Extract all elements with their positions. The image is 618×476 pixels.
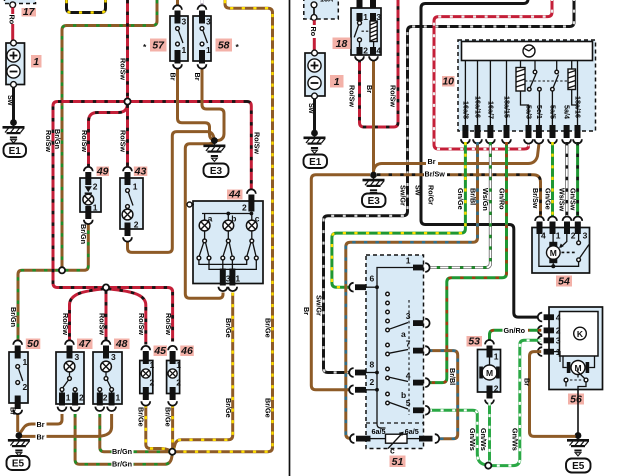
- svg-text:Br: Br: [302, 307, 311, 315]
- pins 6a/5 of 51: [350, 434, 354, 443]
- svg-text:a: a: [401, 329, 406, 339]
- svg-text:Ro/Sw: Ro/Sw: [61, 313, 70, 335]
- svg-text:2: 2: [23, 382, 28, 392]
- wire Gn/Ws motor 56 pin3 to washer junction: [492, 340, 541, 465]
- svg-text:48: 48: [115, 338, 128, 350]
- wire Br from switch 50 to ground E5: [16, 413, 19, 433]
- svg-text:1: 1: [182, 45, 187, 55]
- diode in 49: [85, 186, 92, 192]
- bus in 44: [202, 213, 251, 215]
- svg-text:54: 54: [558, 276, 570, 288]
- motor unit 56: [549, 307, 603, 390]
- svg-text:Sw/Gr: Sw/Gr: [398, 185, 407, 206]
- svg-text:M: M: [486, 368, 493, 378]
- pump 53: [467, 336, 483, 347]
- svg-text:Ro/Sw: Ro/Sw: [97, 313, 106, 335]
- svg-text:5c/1: 5c/1: [535, 105, 544, 119]
- svg-text:6a/5: 6a/5: [372, 427, 386, 436]
- wire Ro/Sw main horizontal and left riser: [53, 102, 247, 342]
- ground E3: [203, 143, 225, 161]
- node ground dot E5: [16, 432, 23, 439]
- wire Ro/Sw relay 18 loop to top edge: [360, 0, 399, 127]
- wire Br motor 56 pin1 to ground E5: [530, 352, 576, 437]
- ground E5: [8, 438, 30, 456]
- svg-text:E5: E5: [572, 461, 585, 472]
- wire Br ground E3 to relay 10 pin 5c/1: [374, 144, 539, 172]
- wire Br from switch 43 to ground E3: [128, 132, 215, 253]
- lamp 45: [141, 346, 150, 350]
- svg-text:Ro/Sw: Ro/Sw: [164, 313, 173, 335]
- svg-text:1: 1: [116, 393, 121, 403]
- wire Ws/Gn relay 10 16a/7 to switch 51 pin1: [429, 142, 490, 268]
- svg-text:1: 1: [556, 231, 561, 241]
- wire Br/Bl switch 51 pin7 to pin 6a/5 right: [429, 351, 458, 439]
- svg-text:c: c: [390, 446, 395, 456]
- svg-text:2: 2: [363, 46, 368, 56]
- svg-text:16a/7: 16a/7: [487, 101, 496, 119]
- svg-text:Br: Br: [365, 85, 374, 93]
- node ground dot E1: [10, 119, 17, 126]
- svg-text:Gn/Ws: Gn/Ws: [510, 428, 519, 451]
- lamp a: [199, 220, 210, 231]
- svg-text:b: b: [231, 214, 236, 224]
- svg-text:Ro/Sw: Ro/Sw: [119, 58, 128, 80]
- wire Br/Ge from lamp 45 to junction: [146, 405, 170, 451]
- wire Br/Gn branch to switch 50: [18, 270, 59, 341]
- svg-text:7: 7: [406, 339, 411, 349]
- wire Br relay 18 pin4 to ground E3: [372, 59, 375, 173]
- svg-text:44: 44: [228, 189, 241, 201]
- switch 58: [198, 5, 207, 9]
- svg-text:46: 46: [180, 345, 193, 357]
- wire Gn/Ge relay 10 16a/8 to switch 51 pin6: [332, 142, 466, 287]
- svg-text:8: 8: [370, 360, 375, 370]
- svg-text:Br/Gn: Br/Gn: [79, 224, 88, 244]
- svg-text:56: 56: [570, 394, 582, 406]
- panel divider: [289, 0, 291, 476]
- lamp b: [223, 220, 234, 231]
- svg-text:2: 2: [242, 203, 247, 213]
- wire Br/Bl relay 10 16a/16 to switch 51 pin 6a/5 left: [346, 142, 478, 438]
- svg-text:3: 3: [406, 311, 411, 321]
- svg-text:Ro/Sw: Ro/Sw: [348, 85, 357, 107]
- wire Ro/Sw feed to lamp 48: [105, 291, 108, 342]
- label Br/Sw on E3 feed: [424, 169, 447, 178]
- svg-text:43: 43: [134, 165, 147, 177]
- wire Ro/Sw branch to lamp 49: [89, 103, 128, 168]
- fuse box 17: [5, 0, 36, 4]
- svg-text:4: 4: [376, 46, 381, 56]
- wire Ro fuse to battery right: [313, 20, 316, 50]
- svg-text:57: 57: [152, 40, 165, 52]
- wire Br/Sw ground E3 to motor 54 pin4: [377, 175, 541, 219]
- ground E3 right: [363, 177, 385, 195]
- label 49: [97, 167, 110, 177]
- svg-text:1: 1: [23, 357, 28, 367]
- node Ro/Sw junction upper: [124, 98, 130, 104]
- svg-text:3: 3: [556, 336, 561, 346]
- svg-text:Sw: Sw: [307, 103, 316, 114]
- svg-text:Br: Br: [9, 407, 18, 415]
- svg-text:Gn/Ge: Gn/Ge: [543, 188, 552, 210]
- svg-text:E1: E1: [309, 157, 322, 168]
- svg-text:Ro/Sw: Ro/Sw: [389, 85, 398, 107]
- svg-text:Br: Br: [428, 157, 436, 166]
- node washer junction: [485, 463, 491, 469]
- label 54: [556, 276, 572, 287]
- svg-text:1: 1: [150, 360, 155, 370]
- wire Gn/Ge relay 10 5a/5 to motor 54 pin1: [551, 142, 554, 218]
- label 17: [22, 8, 37, 17]
- fuse box right: [304, 0, 339, 19]
- coil of relay 18: [370, 21, 377, 42]
- label Br on E3 feed: [426, 157, 438, 166]
- svg-text:Ro/Sw: Ro/Sw: [119, 130, 128, 152]
- svg-text:3: 3: [206, 17, 211, 27]
- wire Gn/Ro relay 10 18a/15 to switch 51 pin4: [429, 142, 507, 383]
- svg-text:1: 1: [334, 76, 340, 88]
- label 51: [390, 456, 406, 468]
- label 1: [31, 55, 42, 68]
- coils relay 10: [516, 68, 525, 92]
- node Ro/Sw junction lower: [103, 284, 109, 290]
- svg-text:Br/Bl: Br/Bl: [468, 188, 477, 205]
- label 44: [227, 190, 243, 200]
- svg-text:18a/15: 18a/15: [503, 96, 512, 118]
- svg-text:53: 53: [468, 336, 480, 348]
- svg-text:18: 18: [336, 38, 348, 50]
- wire Br from switch 58 to ground E3: [202, 68, 224, 141]
- svg-text:2: 2: [571, 231, 576, 241]
- node ground dot E1 right: [311, 130, 318, 137]
- wire Br/Gn branch to lamp 49: [65, 223, 88, 271]
- svg-text:Gn/Ro: Gn/Ro: [497, 188, 506, 210]
- svg-text:Br: Br: [193, 73, 202, 81]
- switch 57: [173, 5, 182, 9]
- motor unit 54: [535, 217, 544, 221]
- svg-text:Br/Gn: Br/Gn: [112, 460, 132, 469]
- wire Br/Gn from lamp 48 pin2 to junction: [100, 414, 169, 452]
- label 1 right: [330, 75, 344, 88]
- lamp 46: [168, 346, 177, 350]
- svg-text:Ro: Ro: [309, 27, 318, 37]
- svg-text:5a/5: 5a/5: [549, 105, 558, 119]
- svg-text:15A: 15A: [320, 0, 333, 4]
- label 45: [154, 346, 168, 357]
- switch 50: [13, 340, 22, 344]
- svg-text:Br/Sw: Br/Sw: [531, 188, 540, 209]
- svg-text:16a/16: 16a/16: [474, 96, 483, 118]
- ground E1 right: [304, 135, 326, 153]
- svg-text:1: 1: [133, 182, 138, 192]
- svg-text:3: 3: [226, 274, 231, 284]
- wiper switch 51: [366, 255, 424, 449]
- svg-text:49: 49: [96, 165, 109, 177]
- svg-text:b: b: [401, 390, 406, 400]
- wire Ro fuse to battery: [11, 8, 14, 15]
- svg-text:5a/3: 5a/3: [525, 105, 534, 119]
- svg-text:2: 2: [370, 377, 375, 387]
- label 18: [333, 38, 351, 50]
- svg-text:3: 3: [182, 17, 187, 27]
- svg-text:a: a: [208, 214, 213, 224]
- contacts in 44: [204, 231, 206, 239]
- label 10: [442, 76, 455, 87]
- wire Ro/Gr from top edge to relay 10 pin 5a/3: [434, 0, 552, 149]
- wire Sw battery to ground E1: [12, 87, 15, 120]
- svg-text:Ws/Gn: Ws/Gn: [481, 188, 490, 211]
- lamp unit 47: [65, 340, 74, 344]
- wire Br from lamp 48 pin1 to ground E5: [20, 414, 112, 436]
- wire Sw battery right to ground E1: [313, 99, 316, 131]
- wire Br top feed of switch 57: [176, 0, 179, 6]
- svg-text:Br: Br: [169, 73, 178, 81]
- svg-text:Br/Gn: Br/Gn: [9, 307, 18, 327]
- wire Gn/Ws pump 53 pin2 to washer junction: [488, 403, 491, 462]
- svg-text:2: 2: [494, 384, 499, 394]
- svg-text:6: 6: [370, 274, 375, 284]
- svg-text:1: 1: [33, 56, 39, 68]
- lamp c: [246, 220, 257, 231]
- svg-text:2: 2: [176, 378, 181, 388]
- wire Br/Gn from lamp 47 pin2 to junction: [75, 414, 172, 464]
- svg-text:Ro/Sw: Ro/Sw: [80, 130, 89, 152]
- wire Sw motor 56 bottom to ground E5: [577, 390, 579, 434]
- svg-text:E3: E3: [368, 196, 381, 207]
- svg-text:2: 2: [134, 220, 139, 230]
- label 47: [77, 339, 93, 350]
- svg-text:4: 4: [406, 371, 411, 381]
- instrument cluster 44: [193, 201, 263, 284]
- svg-text:Br/Ge: Br/Ge: [137, 407, 146, 427]
- wire Br from switch 57 to ground E3: [178, 68, 215, 141]
- battery 1 left: [6, 43, 25, 85]
- svg-text:5: 5: [406, 398, 411, 408]
- svg-text:E1: E1: [9, 146, 22, 157]
- wire Br from lamp 47 pin1 to ground E5: [20, 414, 62, 433]
- svg-text:2: 2: [93, 182, 98, 192]
- internals 51: [377, 268, 413, 429]
- svg-text:Ro/Sw: Ro/Sw: [44, 130, 53, 152]
- svg-text:Ro/Gr: Ro/Gr: [427, 185, 436, 205]
- svg-text:E5: E5: [12, 459, 25, 470]
- svg-text:Br/Ge: Br/Ge: [264, 318, 273, 338]
- svg-text:Ws/Sw: Ws/Sw: [557, 188, 566, 212]
- svg-text:4: 4: [541, 231, 546, 241]
- svg-text:Ro: Ro: [7, 15, 16, 25]
- svg-text:1: 1: [235, 274, 240, 284]
- relay symbol K: [523, 45, 535, 57]
- label 43: [134, 167, 148, 177]
- wire Ws/Sw relay 10 5a/4 to motor 54 pin2: [565, 142, 568, 218]
- svg-text:Ro/Sw: Ro/Sw: [137, 313, 146, 335]
- svg-text:Br/Ge: Br/Ge: [163, 407, 172, 427]
- wire Br/Ge big loop from top edge to bottom junction: [176, 0, 273, 452]
- svg-text:Br/Ge: Br/Ge: [224, 398, 233, 418]
- wire Br from cluster 44 pin3 to ground E3: [185, 141, 223, 298]
- svg-text:Sw: Sw: [6, 95, 15, 106]
- wire Gr top feed of switch 58: [201, 0, 204, 6]
- svg-text:5a/4: 5a/4: [563, 105, 572, 119]
- svg-text:E3: E3: [210, 166, 223, 177]
- wire Br ground E3 to switch 51 pin2: [311, 175, 370, 390]
- svg-text:1: 1: [406, 256, 411, 266]
- wire Br/Ge from cluster 44 pin1 to junction: [174, 293, 233, 449]
- relay block 10: [458, 40, 596, 131]
- svg-text:Br: Br: [37, 420, 45, 429]
- svg-text:Br/Gn: Br/Gn: [53, 129, 62, 149]
- svg-text:1: 1: [363, 12, 368, 22]
- node Br/Gn junction: [59, 267, 65, 273]
- svg-text:4: 4: [556, 312, 561, 322]
- svg-text:c: c: [255, 214, 260, 224]
- svg-text:1: 1: [66, 393, 71, 403]
- svg-text:18a/16: 18a/16: [574, 96, 583, 118]
- svg-text:58: 58: [218, 40, 230, 52]
- svg-text:3: 3: [75, 352, 80, 362]
- node ground dot E3 right: [370, 172, 377, 179]
- svg-text:17: 17: [23, 6, 36, 18]
- wire Br/Gn main feed: [62, 0, 157, 267]
- svg-text:3: 3: [111, 352, 116, 362]
- svg-text:K: K: [577, 329, 584, 339]
- pins relay 10: [462, 125, 468, 138]
- svg-text:51: 51: [392, 456, 404, 468]
- svg-text:Gn/Ge: Gn/Ge: [456, 188, 465, 210]
- svg-text:1: 1: [93, 203, 98, 213]
- internal leads relay 10: [464, 61, 466, 126]
- svg-text:Br/Sw: Br/Sw: [425, 169, 446, 178]
- svg-text:Gn/Ws: Gn/Ws: [468, 428, 477, 451]
- svg-text:Sw/Gr: Sw/Gr: [314, 295, 323, 316]
- ground E1: [3, 125, 25, 143]
- svg-text:2: 2: [79, 393, 84, 403]
- svg-text:Br/Gn: Br/Gn: [112, 447, 132, 456]
- svg-text:Gn/Ws: Gn/Ws: [479, 428, 488, 451]
- node bottom Br/Ge junction: [169, 449, 175, 455]
- node ground dot E5 right: [575, 432, 582, 439]
- wire Ro/Sw vertical from top edge: [126, 0, 129, 99]
- relay 18: [357, 0, 363, 8]
- svg-text:Br/Ge: Br/Ge: [264, 398, 273, 418]
- svg-text:1: 1: [494, 352, 499, 362]
- label 58: [216, 39, 233, 52]
- svg-text:1: 1: [206, 45, 211, 55]
- svg-text:Gn/Ro: Gn/Ro: [504, 326, 526, 335]
- svg-text:10: 10: [442, 76, 454, 88]
- wire Ro/Sw branch to lamp 47: [70, 289, 105, 342]
- svg-text:2: 2: [556, 326, 561, 336]
- wire Gn/Ro motor 56 pin2 to pump 53 pin1: [490, 330, 542, 341]
- lamp unit 49: [84, 167, 93, 171]
- svg-text:2: 2: [103, 393, 108, 403]
- svg-text:Br/Ge: Br/Ge: [224, 318, 233, 338]
- svg-text:47: 47: [78, 338, 92, 350]
- svg-text:M: M: [550, 248, 557, 258]
- wire Gn/Ws switch 51 pin5 to washer junction: [429, 410, 486, 465]
- wire Br/Ge from lamp 46 to junction: [171, 405, 174, 449]
- svg-text:3: 3: [376, 12, 381, 22]
- svg-text:Sw: Sw: [414, 185, 423, 196]
- svg-text:Ro/Sw: Ro/Sw: [253, 132, 262, 154]
- svg-text:Br/Bl: Br/Bl: [448, 368, 457, 385]
- wire Ro/Sw branch to lamp 45: [108, 289, 146, 345]
- svg-text:50: 50: [27, 338, 39, 350]
- ground E5 right: [567, 438, 589, 456]
- battery 1 right: [305, 53, 325, 96]
- label 46: [180, 346, 194, 357]
- wire Ro/Sw feed to switch 43: [126, 105, 129, 169]
- wire Gn/Sw relay 10 18a/16 to motor 54 pin3: [576, 142, 579, 218]
- lamp in 49: [83, 194, 94, 205]
- lamp unit 48: [102, 340, 111, 344]
- svg-text:2: 2: [150, 378, 155, 388]
- svg-text:1: 1: [176, 360, 181, 370]
- label 56: [568, 394, 584, 405]
- node ground dot E3: [211, 137, 218, 144]
- svg-text:3: 3: [583, 231, 588, 241]
- svg-text:Br: Br: [523, 378, 532, 386]
- wire Sw/Gr from top edge to switch 51 pin8: [324, 0, 575, 373]
- label 50: [26, 339, 41, 350]
- svg-text:Gn/Sw: Gn/Sw: [568, 188, 577, 211]
- switch 43: [123, 167, 132, 171]
- label 48: [114, 339, 130, 350]
- wire Sw from top edge to motor 56 pin4: [421, 0, 540, 317]
- svg-text:16a/8: 16a/8: [462, 101, 471, 119]
- wire Sw/Ge loop from top edge: [67, 0, 106, 13]
- wire Ro/Sw feed to cluster 44: [247, 102, 251, 191]
- svg-text:45: 45: [153, 345, 166, 357]
- svg-text:Br: Br: [37, 432, 45, 441]
